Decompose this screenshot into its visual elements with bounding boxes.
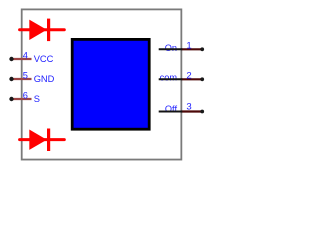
svg-text:GND: GND xyxy=(34,74,55,84)
svg-text:VCC: VCC xyxy=(34,54,54,64)
svg-text:com: com xyxy=(160,73,178,83)
svg-text:S: S xyxy=(34,94,40,104)
svg-text:2: 2 xyxy=(186,70,191,81)
svg-text:4: 4 xyxy=(23,51,28,61)
svg-text:5: 5 xyxy=(23,71,28,81)
svg-text:6: 6 xyxy=(23,91,28,101)
svg-text:3: 3 xyxy=(186,101,191,112)
svg-text:1: 1 xyxy=(186,41,191,52)
svg-text:Off: Off xyxy=(165,104,178,114)
svg-text:On: On xyxy=(165,43,177,53)
